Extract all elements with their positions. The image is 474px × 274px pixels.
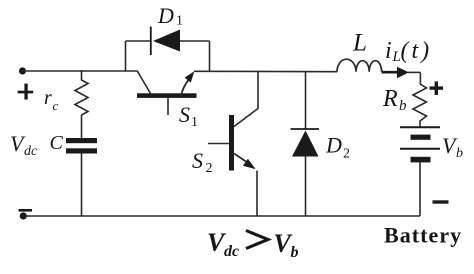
label V_b xyxy=(442,133,463,161)
label D2 xyxy=(325,133,350,162)
svg-text:b: b xyxy=(291,244,299,261)
wire: D2 branch bottom vertical xyxy=(305,157,307,217)
wire: D2 branch top vertical xyxy=(305,72,307,129)
svg-text:2: 2 xyxy=(343,147,350,162)
label S1 xyxy=(179,102,198,130)
svg-text:i: i xyxy=(385,38,392,64)
label S2 xyxy=(192,148,213,176)
label: - sign of V_dc source xyxy=(19,209,33,212)
wire: r_c to capacitor xyxy=(81,115,83,138)
label: - sign of battery xyxy=(433,200,449,203)
diode D2 (cathode bar and triangle, pointing up) xyxy=(291,129,320,157)
transistor S1 (collector diagonal, base bar, gate stub, emitter arrow) xyxy=(137,71,197,115)
battery V_b (two cells: long thin and short thick plates) xyxy=(400,127,440,162)
wire: D1 loop left vertical xyxy=(125,41,127,71)
diode D1 (cathode bar and triangle, pointing left) xyxy=(151,27,180,56)
wire: D1 loop top left segment xyxy=(126,40,151,42)
wire: D1 loop right vertical xyxy=(209,41,211,71)
wire: D1 loop top right segment xyxy=(180,40,210,42)
label: condition V_dc > V_b xyxy=(207,228,299,261)
svg-text:b: b xyxy=(456,146,463,161)
label R_b xyxy=(382,86,407,114)
node: V_dc positive terminal dot xyxy=(19,67,26,74)
svg-text:dc: dc xyxy=(24,144,38,159)
label Battery xyxy=(384,223,462,248)
resistor r_c xyxy=(75,70,88,115)
svg-text:D: D xyxy=(157,3,174,28)
svg-text:S: S xyxy=(192,148,203,173)
svg-text:r: r xyxy=(44,87,52,109)
label V_dc xyxy=(10,131,38,159)
svg-text:2: 2 xyxy=(206,161,213,176)
wire: top bus from S1 emitter to inductor xyxy=(194,70,337,72)
wire: top bus from + terminal to D1/S1 junction xyxy=(23,70,138,72)
wire: inductor to arrow (current direction i_L) xyxy=(382,67,421,78)
label D1 xyxy=(157,3,183,29)
inductor L xyxy=(337,59,382,72)
transistor S2 (bar, base stub, collector, emitter arrow) xyxy=(208,72,258,216)
label i_L(t) xyxy=(385,38,432,65)
wire: battery to bottom bus xyxy=(419,162,421,216)
svg-text:L: L xyxy=(392,49,401,65)
svg-text:Battery: Battery xyxy=(384,223,462,248)
label C xyxy=(50,132,64,154)
wire: bottom bus xyxy=(23,215,420,217)
svg-text:b: b xyxy=(399,98,407,114)
label r_c xyxy=(44,87,59,113)
svg-text:C: C xyxy=(50,132,64,154)
svg-text:D: D xyxy=(325,133,342,158)
label L xyxy=(352,29,367,56)
svg-text:1: 1 xyxy=(191,115,198,130)
wire: capacitor to bottom bus xyxy=(81,154,83,217)
svg-text:c: c xyxy=(53,98,59,113)
label: + sign of V_dc source xyxy=(18,84,34,100)
svg-text:L: L xyxy=(352,29,367,56)
svg-text:dc: dc xyxy=(224,243,239,260)
svg-text:(t): (t) xyxy=(401,38,433,64)
svg-text:1: 1 xyxy=(176,14,183,29)
node: V_dc negative terminal dot xyxy=(20,212,27,219)
svg-text:S: S xyxy=(179,102,190,127)
wire: top-right corner down to R_b xyxy=(419,72,421,84)
svg-text:R: R xyxy=(382,86,398,112)
label: + sign of battery xyxy=(430,81,444,95)
capacitor C xyxy=(66,138,97,154)
resistor R_b xyxy=(413,84,427,127)
